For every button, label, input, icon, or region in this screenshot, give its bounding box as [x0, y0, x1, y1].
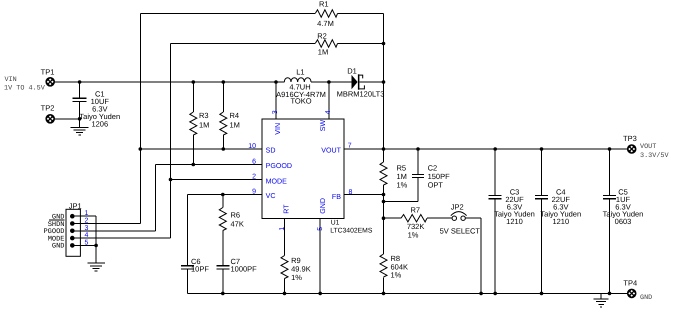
svg-text:VC: VC — [266, 192, 276, 200]
svg-text:PGOOD: PGOOD — [266, 162, 292, 170]
svg-text:VOUT: VOUT — [640, 143, 656, 151]
svg-text:R7: R7 — [411, 205, 421, 214]
svg-text:1%: 1% — [291, 273, 302, 282]
svg-text:VOUT: VOUT — [321, 147, 341, 155]
svg-text:TP4: TP4 — [623, 278, 637, 287]
svg-text:1%: 1% — [408, 231, 419, 240]
svg-text:6: 6 — [252, 158, 256, 165]
svg-text:TP3: TP3 — [623, 134, 637, 143]
svg-text:4: 4 — [85, 232, 89, 239]
svg-text:2: 2 — [85, 218, 89, 225]
svg-text:1: 1 — [85, 210, 89, 217]
svg-text:GND: GND — [319, 198, 327, 214]
svg-text:3: 3 — [85, 225, 89, 232]
svg-text:10: 10 — [248, 143, 256, 150]
svg-text:4: 4 — [325, 110, 332, 114]
svg-text:10PF: 10PF — [191, 265, 209, 274]
svg-text:7: 7 — [348, 142, 352, 149]
svg-text:1%: 1% — [397, 180, 408, 189]
svg-text:9: 9 — [252, 188, 256, 195]
svg-text:L1: L1 — [296, 68, 304, 77]
svg-text:LTC3402EMS: LTC3402EMS — [330, 227, 373, 234]
svg-text:1V TO 4.5V: 1V TO 4.5V — [4, 84, 46, 92]
svg-text:R1: R1 — [319, 0, 329, 9]
svg-text:JP1: JP1 — [69, 201, 82, 210]
svg-text:2: 2 — [252, 173, 256, 180]
svg-text:1: 1 — [279, 227, 286, 231]
svg-text:RT: RT — [282, 204, 290, 214]
svg-text:R3: R3 — [199, 111, 209, 120]
svg-text:1206: 1206 — [91, 119, 108, 128]
svg-text:3: 3 — [272, 110, 279, 114]
svg-text:MBRM120LT3: MBRM120LT3 — [337, 90, 385, 99]
svg-text:TOKO: TOKO — [290, 97, 311, 106]
svg-text:SD: SD — [266, 146, 276, 154]
svg-text:1M: 1M — [318, 48, 328, 57]
svg-text:1000PF: 1000PF — [231, 265, 258, 274]
svg-text:D1: D1 — [347, 66, 357, 75]
svg-text:MODE: MODE — [266, 178, 288, 186]
svg-text:1M: 1M — [199, 120, 209, 129]
svg-text:5V SELECT: 5V SELECT — [440, 226, 481, 235]
svg-text:R6: R6 — [231, 211, 241, 220]
svg-text:3.3V/5V: 3.3V/5V — [640, 152, 669, 160]
svg-text:GND: GND — [52, 243, 65, 251]
svg-text:0603: 0603 — [615, 217, 632, 226]
svg-text:GND: GND — [640, 294, 652, 302]
svg-text:4.7M: 4.7M — [317, 19, 334, 28]
svg-text:1%: 1% — [391, 271, 402, 280]
svg-text:5: 5 — [85, 239, 89, 246]
svg-text:R4: R4 — [230, 111, 240, 120]
svg-text:TP2: TP2 — [41, 104, 55, 113]
svg-text:VIN: VIN — [5, 76, 17, 84]
svg-text:TP1: TP1 — [41, 67, 55, 76]
svg-text:SW: SW — [319, 119, 327, 131]
svg-text:47K: 47K — [231, 219, 244, 228]
svg-text:U1: U1 — [331, 219, 340, 226]
svg-text:5: 5 — [317, 227, 324, 231]
svg-text:OPT: OPT — [428, 180, 444, 189]
svg-text:1210: 1210 — [552, 217, 569, 226]
svg-text:1M: 1M — [230, 120, 240, 129]
svg-text:8: 8 — [349, 189, 353, 196]
svg-text:JP2: JP2 — [451, 203, 464, 212]
svg-text:FB: FB — [332, 193, 341, 201]
svg-text:VIN: VIN — [274, 123, 282, 135]
svg-text:1210: 1210 — [506, 217, 523, 226]
svg-text:R2: R2 — [317, 32, 327, 41]
